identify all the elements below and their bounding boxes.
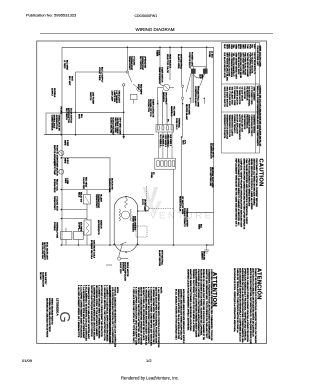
svg-text:MOTOR IMPULSOR: MOTOR IMPULSOR	[235, 115, 237, 135]
svg-text:Rendered by LeadVenture, Inc.: Rendered by LeadVenture, Inc.	[121, 376, 179, 381]
notes mid	[132, 287, 148, 346]
wire label POWER CORD	[188, 52, 192, 69]
svg-text:FUSIBLE: FUSIBLE	[53, 222, 55, 231]
svg-text:CONTACTOS: CONTACTOS	[147, 99, 150, 112]
svg-text:RELE: RELE	[77, 192, 79, 198]
wire label DRUM LIGHT	[111, 91, 120, 104]
wire bottom bus	[62, 244, 214, 246]
svg-text:LORS DES OPERATIONS D'ENTRETIE: LORS DES OPERATIONS D'ENTRETIEN DES COMM…	[210, 269, 213, 341]
wire label WHT NEUTRAL WIRE	[194, 86, 199, 108]
wire neutral bus	[44, 134, 154, 136]
svg-text:L1 FEED: L1 FEED	[63, 60, 65, 69]
wire label WHT WIRE CONN	[109, 118, 120, 136]
wire label NEUTRAL WHT WIRE	[209, 167, 214, 188]
wire left main vertical	[61, 47, 63, 245]
wire label 4 P1	[181, 140, 185, 145]
gas valve coils	[61, 232, 72, 240]
header rule	[40, 33, 273, 35]
push to start switch	[59, 150, 64, 155]
wire label LINT FILTER	[89, 92, 93, 105]
svg-text:CONN: CONN	[150, 172, 152, 178]
svg-text:PC POWER CORD: PC POWER CORD	[250, 87, 252, 106]
svg-text:CONEXION BLANCO: CONEXION BLANCO	[194, 86, 197, 107]
svg-text:DE CONTROL: DE CONTROL	[139, 56, 141, 70]
wire label HI-LIMIT	[95, 194, 102, 209]
svg-text:AVIS DASHED LINES INDICATE WI: AVIS DASHED LINES INDICATE WIRING NOT SU…	[182, 289, 185, 344]
wire label WHT NEUTRAL	[177, 54, 182, 70]
part number caption	[46, 298, 54, 338]
wire lamp branch	[123, 84, 125, 86]
svg-text:CDGS000FW1: CDGS000FW1	[135, 14, 158, 18]
svg-text:2. GROUNDED NEUTRAL ONLY WITH: 2. GROUNDED NEUTRAL ONLY WITH APPROVED L…	[103, 285, 106, 342]
nota block	[108, 287, 119, 348]
svg-text:ROJO: ROJO	[137, 84, 139, 90]
svg-text:FUSIBLE TERMICO: FUSIBLE TERMICO	[233, 115, 235, 134]
svg-text:137036200 A: 137036200 A	[56, 298, 60, 316]
heater relay box	[84, 195, 91, 205]
svg-text:CAN CAUSE IMPROPER AND DANGERO: CAN CAUSE IMPROPER AND DANGEROUS OPERATI…	[245, 159, 248, 225]
svg-text:BOBINA RELE: BOBINA RELE	[53, 179, 56, 193]
junction dots	[61, 47, 208, 253]
svg-text:VERIFIER LE BON FONCTIONNEMENT: VERIFIER LE BON FONCTIONNEMENT APRES L'E…	[187, 269, 190, 331]
wire label WHT NEUTRAL	[158, 250, 163, 267]
svg-text:FOCO: FOCO	[141, 199, 143, 205]
wire label WHT/BLK	[51, 88, 55, 98]
buzzer circle	[144, 206, 149, 211]
wire label 6 BLU	[64, 158, 68, 164]
wire label RELAY COIL	[53, 179, 58, 193]
svg-text:DASHED LINES INDICATE WIRING S: DASHED LINES INDICATE WIRING SUPPLIED FO…	[179, 289, 182, 340]
power cord drop	[206, 47, 208, 69]
svg-text:TERMOSTATO: TERMOSTATO	[95, 194, 98, 208]
avis note	[174, 289, 185, 344]
svg-text:REPLACEMENT WIRE MUST BE THE S: REPLACEMENT WIRE MUST BE THE SAME SIZE A…	[235, 159, 238, 228]
wire label DOOR SWITCH	[65, 108, 72, 124]
timer motor circle	[59, 169, 64, 174]
svg-text:1. ALL WIRING SHOWN WITH CONTR: 1. ALL WIRING SHOWN WITH CONTROLS IN OFF…	[157, 287, 160, 348]
svg-text:GRN GREEN VERDE VERT: GRN GREEN VERDE VERT	[235, 53, 237, 80]
table header WIRE COLOR CODE	[256, 46, 261, 68]
wire label IGNITOR	[97, 220, 101, 235]
svg-text:120V LAMP: 120V LAMP	[111, 91, 114, 102]
svg-text:8. A LA TERRE CORRECTEMENT AVA: 8. A LA TERRE CORRECTEMENT AVANT UTILISA…	[79, 285, 82, 338]
wire label RED HEAT	[82, 177, 87, 190]
svg-text:MUST BE CONNECTED BEFORE OPERA: MUST BE CONNECTED BEFORE OPERATION OF DR…	[139, 287, 142, 345]
svg-text:CUANDO SE REPARAN LOS CONTROLE: CUANDO SE REPARAN LOS CONTROLES, MARQUE …	[254, 268, 257, 344]
svg-text:DIAGRAMA DE CABLEADO NO DE PAR: DIAGRAMA DE CABLEADO NO DE PARTE	[46, 298, 49, 338]
svg-text:CLIP: CLIP	[198, 74, 200, 79]
svg-text:SWITCH: SWITCH	[89, 92, 91, 101]
wire label WHT	[68, 76, 72, 86]
svg-text:COMMUTATEUR: COMMUTATEUR	[50, 115, 53, 131]
svg-text:9. ALL REPLACEMENT WIRING 105: 9. ALL REPLACEMENT WIRING 105 C MINIMUM …	[77, 285, 80, 338]
wire heater loop	[62, 189, 110, 191]
svg-text:CABINET: CABINET	[200, 251, 203, 260]
wire label THERMAL	[175, 118, 180, 130]
table header CODIGO	[256, 86, 262, 116]
svg-text:MOTOR TEMP: MOTOR TEMP	[53, 161, 55, 176]
wire label 120 VAC 60 HZ	[209, 143, 214, 159]
svg-text:BLU WHT: BLU WHT	[68, 76, 70, 86]
wire label PUSH TO START	[53, 145, 58, 166]
wire label TIMER SWITCH	[158, 67, 162, 84]
svg-text:SOURCE DE DANGER ET DE PANNE.: SOURCE DE DANGER ET DE PANNE. S'ASSURER …	[200, 269, 203, 336]
svg-text:CABLES DE TIERRA ESTEN CONECTA: CABLES DE TIERRA ESTEN CONECTADOS ANTES …	[236, 268, 239, 333]
svg-text:GRY: GRY	[241, 44, 243, 49]
dashed link	[145, 186, 147, 206]
table header CODE DE COULEUR	[256, 114, 261, 147]
svg-text:WIRE: WIRE	[197, 224, 199, 230]
svg-text:1. CONNECT TO ELECTRICAL SUPPL: 1. CONNECT TO ELECTRICAL SUPPLY WITH GRO…	[105, 285, 108, 342]
svg-text:OPERACION INADECUADA Y PELIGRO: OPERACION INADECUADA Y PELIGROSA. VERIFI…	[244, 268, 247, 341]
svg-text:WIRE: WIRE	[64, 158, 66, 164]
svg-text:AVANT DE LES DEBRANCHER. TOUT: AVANT DE LES DEBRANCHER. TOUTE ERREUR DE…	[205, 269, 208, 339]
svg-text:BLANCO WIRE: BLANCO WIRE	[177, 54, 180, 69]
wire label GROUND	[200, 251, 204, 260]
svg-text:COMMANDES, ETIQUETER TOUS LES: COMMANDES, ETIQUETER TOUS LES FILS AVANT…	[207, 269, 210, 340]
svg-text:PNK: PNK	[244, 44, 246, 49]
wire label OR WHT/OR WIRE	[179, 196, 183, 215]
left legend box	[46, 113, 61, 135]
svg-text:T1 TIMER MOTOR: T1 TIMER MOTOR	[238, 87, 240, 105]
wire label MOTOR SW	[108, 178, 112, 194]
svg-text:WIRING NOT SUPPLIED ON ALL MOD: WIRING NOT SUPPLIED ON ALL MODELS AS PER	[177, 289, 180, 340]
timer connector plug B	[155, 158, 176, 169]
svg-text:START WINDING: START WINDING	[131, 216, 134, 232]
notes list right	[147, 287, 162, 348]
wire top bus L1	[62, 47, 214, 245]
svg-text:SECADORA DE ROPA. VERIFIQUE L: SECADORA DE ROPA. VERIFIQUE LA OPERACION…	[233, 268, 236, 333]
svg-text:DE GAS: DE GAS	[39, 272, 42, 280]
wire label 5 RED	[64, 140, 68, 147]
svg-text:7. LA SECHEUSE DOIT ETRE MISE: 7. LA SECHEUSE DOIT ETRE MISE A LA TERRE…	[82, 285, 85, 339]
svg-text:BRN: BRN	[239, 44, 241, 49]
svg-text:ORG: ORG	[230, 44, 232, 49]
svg-text:WIRES FOR PROPER CONNECTION AN: WIRES FOR PROPER CONNECTION AND ROUTING …	[242, 159, 245, 230]
svg-text:ASEGURESE DE QUE LA SECADORA F: ASEGURESE DE QUE LA SECADORA FUNCIONE CO…	[241, 268, 244, 343]
belt switch box dashed	[136, 226, 147, 237]
wire label CYCLING	[128, 56, 135, 71]
svg-text:WHT: WHT	[78, 114, 80, 119]
motor switch contact	[120, 242, 127, 245]
svg-text:ENCENDEDOR: ENCENDEDOR	[97, 220, 99, 235]
contact row drops	[189, 98, 191, 103]
svg-text:TERMOSTATO: TERMOSTATO	[128, 56, 131, 70]
svg-text:IG1 IGNITOR: IG1 IGNITOR	[243, 87, 245, 100]
svg-text:GABINETE TIERRA: GABINETE TIERRA	[253, 115, 256, 134]
svg-text:BLK: BLK	[223, 44, 225, 49]
svg-text:CAUTION: CAUTION	[258, 159, 264, 187]
svg-text:WIRING DIAGRAM: WIRING DIAGRAM	[136, 27, 175, 32]
wire label BLK	[197, 224, 201, 230]
motor feed	[138, 210, 149, 212]
attention body	[187, 269, 213, 341]
motor windings	[119, 198, 132, 245]
svg-text:1/2: 1/2	[146, 358, 152, 363]
svg-text:DE PUERTA: DE PUERTA	[65, 108, 68, 120]
svg-text:ERROR DE CABLEADO PUEDE CAUSAR: ERROR DE CABLEADO PUEDE CAUSAR UNA FALLA…	[246, 268, 249, 342]
power cord terminals	[191, 66, 207, 73]
wire label HEAT SELECT	[166, 54, 171, 73]
wire label P2	[150, 172, 154, 178]
wire label TIMER MOTOR	[53, 161, 57, 176]
svg-text:IN ALL MODELS SHOWN ON THIS DI: IN ALL MODELS SHOWN ON THIS DIAGRAM ONLY	[174, 289, 177, 340]
svg-text:TODO EL CABLEADO SE MUESTRA CO: TODO EL CABLEADO SE MUESTRA CON LOS CONT…	[113, 287, 116, 348]
drawing frame	[37, 41, 267, 344]
connector arrow	[122, 136, 125, 139]
connector block drop	[173, 169, 175, 245]
svg-text:WIRE: WIRE	[64, 178, 66, 184]
wire mid branch	[61, 158, 110, 245]
svg-text:P4 WHT: P4 WHT	[60, 107, 62, 115]
wire gas valve	[65, 228, 67, 232]
svg-text:SERVICING. ALL WIRES SHOWN AR: SERVICING. ALL WIRES SHOWN ARE VIEWED	[252, 159, 255, 206]
svg-text:ANTES DE DESCONECTARLOS/CONECT: ANTES DE DESCONECTARLOS/CONECTARLOS. CUA…	[249, 268, 252, 344]
svg-text:R1 RESISTOR: R1 RESISTOR	[245, 87, 247, 101]
svg-text:120V RETURN LINE: 120V RETURN LINE	[209, 167, 211, 187]
timer motor circle	[163, 84, 169, 90]
timer connector plug A	[156, 125, 174, 132]
svg-text:CENTRIFUGAL: CENTRIFUGAL	[108, 178, 111, 194]
svg-text:ADECUADAMENTE DESPUES DE REPAR: ADECUADAMENTE DESPUES DE REPARARLA Y COM…	[238, 268, 241, 342]
svg-text:PUR: PUR	[248, 44, 250, 49]
wire label THERMAL FUSE	[53, 222, 58, 239]
svg-text:TABLEAU DES COMPOSANTS: TABLEAU DES COMPOSANTS	[256, 114, 259, 146]
svg-text:AVANT DE FAIRE FONCTIONNER LA: AVANT DE FAIRE FONCTIONNER LA SECHEUSE A…	[189, 269, 192, 332]
svg-text:5. GROUNDING WIRES ARE SHOWN I: 5. GROUNDING WIRES ARE SHOWN IN HEAVY LI…	[145, 287, 148, 346]
contact c2	[181, 85, 183, 87]
svg-text:TERMOSTATO: TERMOSTATO	[53, 196, 56, 210]
svg-text:RED RED ROJO ROUGE: RED RED ROJO ROUGE	[228, 53, 230, 78]
svg-text:WHEN SERVICING CONTROLS, LABEL: WHEN SERVICING CONTROLS, LABEL ALL WIRES	[250, 159, 253, 211]
svg-text:TEMPORIZADOR: TEMPORIZADOR	[158, 67, 161, 84]
svg-text:BOBINAS VALVULA: BOBINAS VALVULA	[90, 240, 93, 259]
svg-text:COMPLETE. VERIFY PROPER OPERA: COMPLETE. VERIFY PROPER OPERATION AFTER …	[240, 159, 243, 228]
svg-text:BLU: BLU	[237, 44, 239, 49]
wire neutral upper	[61, 111, 123, 113]
svg-text:NARANJA: NARANJA	[162, 92, 165, 102]
svg-text:3. DISCONNECT POWER CORD BEFOR: 3. DISCONNECT POWER CORD BEFORE ANY SERV…	[149, 287, 152, 347]
svg-text:CONN: CONN	[208, 51, 210, 58]
svg-text:AND THE DOOR OPEN IN ITS NORMA: AND THE DOOR OPEN IN ITS NORMAL POSITION…	[154, 287, 157, 344]
svg-text:REMARQUE: TOUT LE CABLAGE EST: REMARQUE: TOUT LE CABLAGE EST MONTRE AVE…	[108, 285, 111, 342]
svg-text:5. REMARQUE TOUT LE CABLAGE ES: 5. REMARQUE TOUT LE CABLAGE EST MONTRE A…	[87, 285, 90, 340]
svg-text:RESISTOR 5.4K: RESISTOR 5.4K	[179, 196, 181, 212]
wire label GAS VALVE COILS	[90, 240, 95, 259]
svg-text:SUPPLY: SUPPLY	[51, 88, 53, 97]
cord arcs	[196, 74, 205, 96]
svg-text:BLANC NEUTRE: BLANC NEUTRE	[109, 118, 112, 134]
timer contact drops	[159, 47, 161, 84]
right sensor line	[181, 137, 183, 206]
svg-text:M1 DRIVE MOTOR: M1 DRIVE MOTOR	[235, 87, 237, 106]
svg-text:TIMER: TIMER	[155, 50, 157, 57]
svg-text:FUSE 196 C: FUSE 196 C	[175, 118, 177, 130]
svg-text:GROUNDING SCREW OF THE APPLIAN: GROUNDING SCREW OF THE APPLIANCE CABINET…	[95, 285, 98, 337]
wire label RELAY SW	[77, 192, 82, 202]
wire label DUAL VALVE ASSY	[41, 242, 49, 261]
wire label MAIN WINDING	[131, 216, 136, 232]
svg-text:BLANC NEUTRE: BLANC NEUTRE	[158, 250, 161, 267]
svg-text:LBU: LBU	[253, 44, 255, 49]
svg-text:7. REPLACE WIRE ONLY WITH 105: 7. REPLACE WIRE ONLY WITH 105 C TYPE WIR…	[132, 287, 135, 343]
svg-text:VIOLET WIRE: VIOLET WIRE	[98, 67, 100, 81]
svg-text:NOTA:: NOTA:	[116, 287, 119, 294]
wire label BLU	[78, 114, 82, 119]
wire label DRUM LAMP	[141, 199, 146, 212]
wire label ORG WIRE	[162, 92, 166, 103]
door switch	[126, 47, 141, 103]
svg-text:GND CABINET: GND CABINET	[253, 87, 256, 102]
svg-text:01/09: 01/09	[22, 358, 33, 363]
svg-text:CHISPA: CHISPA	[77, 222, 80, 230]
ground symbol	[204, 245, 209, 253]
svg-text:GRN: GRN	[235, 44, 237, 49]
svg-text:S'ASSURER QUE L'APPAREIL FONCT: S'ASSURER QUE L'APPAREIL FONCTIONNE ADEQ…	[197, 269, 200, 337]
svg-text:ENCENDEDOR: ENCENDEDOR	[243, 115, 245, 130]
contact row dots	[157, 98, 205, 105]
svg-text:IN HEAVY LINES. ALL GROUNDS M: IN HEAVY LINES. ALL GROUNDS MUST BE IN P…	[142, 287, 145, 341]
svg-text:LOS CONTROLES EN POSICION OFF: LOS CONTROLES EN POSICION OFF Y LA PUERT…	[111, 287, 114, 344]
svg-text:WIRE: WIRE	[64, 140, 66, 146]
svg-text:SELECTOR CALOR: SELECTOR CALOR	[166, 54, 169, 73]
svg-text:CORDON ELECT: CORDON ELECT	[188, 52, 190, 69]
wire label YEL WIRE	[170, 106, 174, 117]
ignitor box	[84, 220, 91, 235]
watermark logo	[143, 187, 163, 216]
svg-text:DISCONNECT ELECTRICAL CURRENT: DISCONNECT ELECTRICAL CURRENT BEFORE	[255, 159, 258, 208]
atencion body	[233, 268, 257, 344]
wire label WHT WIRE	[185, 104, 189, 121]
plug wire labels	[159, 135, 171, 148]
svg-text:APPROVED LOCAL CODES PERMIT TH: APPROVED LOCAL CODES PERMIT THIS PRACTIC…	[100, 285, 103, 338]
wire label GAS SUPPLY	[39, 272, 47, 287]
wire label IGN WIRE	[77, 222, 81, 232]
svg-text:COLOR CODE LIST: COLOR CODE LIST	[256, 46, 258, 67]
svg-text:NEUTRE BLANC: NEUTRE BLANC	[185, 104, 188, 121]
svg-text:ALIMENTACION: ALIMENTACION	[209, 143, 212, 159]
plug A wires down	[158, 132, 172, 158]
wire label GRN	[198, 74, 202, 79]
svg-text:CALOR RED: CALOR RED	[82, 177, 85, 190]
timer contact fan	[158, 74, 205, 138]
wire label BLK L1 SUPPLY	[98, 67, 102, 83]
notes list left	[77, 285, 111, 342]
svg-text:6. EL ALAMBRADO SE MUESTRA CON: 6. EL ALAMBRADO SE MUESTRA CON LOS CONTR…	[85, 285, 88, 341]
svg-text:BLU WIRE 5: BLU WIRE 5	[159, 135, 161, 147]
wire label TIMER CONTACTS	[147, 99, 155, 118]
wire door switch feed	[76, 71, 129, 73]
caution body	[235, 159, 258, 230]
motor M1 outline	[114, 197, 138, 252]
svg-text:TABLA DE COMPONENTES: TABLA DE COMPONENTES	[256, 86, 259, 115]
svg-text:1/4 HP 120V: 1/4 HP 120V	[119, 262, 121, 274]
wire label DRIVE MOTOR	[119, 262, 128, 281]
svg-text:AMARILLO: AMARILLO	[170, 106, 173, 117]
bottom left stub	[119, 244, 123, 257]
wire label L1 BLK	[208, 51, 212, 58]
svg-text:ERREUR DE CABLAGE PEUT ETRE UN: ERREUR DE CABLAGE PEUT ETRE UNE SOURCE D…	[202, 269, 205, 341]
wire label BLK WIRE	[63, 60, 67, 71]
left box text	[50, 115, 60, 131]
svg-text:SW1 DOOR SWITCH: SW1 DOOR SWITCH	[223, 87, 225, 108]
svg-text:ADEQUATEMENT UNE FOIS L'ENTRET: ADEQUATEMENT UNE FOIS L'ENTRETIEN TERMIN…	[194, 269, 197, 338]
wire label CYCLING STAT	[53, 196, 58, 212]
svg-text:QUE TODOS LOS CABLES CON ETIQU: QUE TODOS LOS CABLES CON ETIQUETAS ANTES…	[251, 268, 254, 337]
svg-text:Publication No: 5995531323: Publication No: 5995531323	[26, 13, 77, 18]
wire label 2 BLK	[155, 50, 159, 57]
wire label 1 GRN	[64, 178, 68, 185]
svg-text:CORDON ELECTRICO: CORDON ELECTRICO	[250, 115, 252, 137]
svg-text:WHT: WHT	[181, 140, 183, 145]
svg-text:TERMINE. RACCORDEZ TOUS LES F: TERMINE. RACCORDEZ TOUS LES FILS DE MISE…	[192, 269, 195, 332]
svg-text:OPERATION OF THE DRYER IS ATTE: OPERATION OF THE DRYER IS ATTEMPTED. SEE…	[137, 287, 140, 344]
wire label THERMAL LIMITER	[183, 208, 188, 227]
svg-text:AND RECONNECT GROUND WIRES TO: AND RECONNECT GROUND WIRES TO CABINET AS…	[237, 159, 240, 227]
svg-text:RED: RED	[228, 44, 230, 49]
wire color code table	[222, 43, 260, 154]
svg-text:WHT: WHT	[225, 44, 227, 49]
svg-text:LBU LT BLUE AZUL CL: LBU LT BLUE AZUL CL	[253, 53, 256, 76]
wire label OPERATING	[139, 56, 147, 71]
svg-text:VALVULA DE GAS: VALVULA DE GAS	[41, 242, 44, 259]
wire label RED WIRE	[137, 84, 141, 95]
